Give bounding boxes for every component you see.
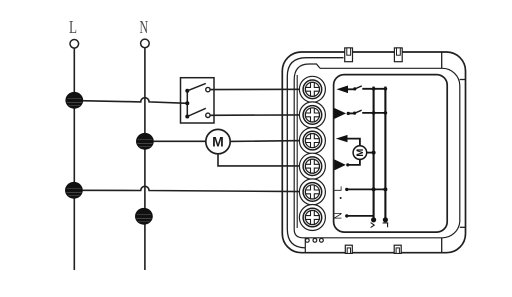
module lid seam and terminal compartment [294,64,460,238]
screw terminal 4 [303,157,322,176]
svg-text:M: M [355,149,366,157]
wire: L junction to switch common (hop over N) [74,98,187,104]
printed bus 1 end dot [371,217,376,222]
printed wire row 3 to motor symbol [348,139,360,146]
bottom clip tab 1 [345,245,352,253]
switch S box [181,78,215,123]
inner panel [334,75,448,233]
switch S contact circle 2 [206,113,210,117]
screw terminal 1 [303,80,322,99]
wire: switch contact 1 to module terminal 1 [210,88,303,90]
svg-text:L: L [69,17,77,37]
stray print dot [340,197,342,199]
top clip tab 2 [394,48,402,62]
motor M [206,129,230,153]
top clip tab 1 [345,48,353,62]
switch S blade 2 [187,108,206,116]
terminal N [140,17,150,48]
switch S contact circle 1 [206,87,210,91]
module lid step top [441,53,443,69]
printed arrow terminal 1 [337,86,349,94]
module lid step right-bottom [460,226,466,228]
switch S pole dots [185,89,189,119]
printed arrow terminal 3 [336,135,348,142]
junction dot: L upper [65,92,83,109]
junction dot: L lower [65,182,83,199]
printed bus 2 [384,87,386,220]
module lid inner-left outline [287,58,343,248]
wire: L vertical line [73,48,75,270]
svg-text:L: L [334,186,345,192]
screw terminal 3 [303,131,322,150]
wire: switch contact 2 to module terminal 2 [210,114,303,116]
indicator holes [305,238,323,242]
screw terminal 6 [303,208,322,227]
svg-text:M: M [212,134,224,150]
module lid step bottom [441,238,443,253]
wire: motor to module terminal 3 [230,140,303,143]
printed motor symbol [353,146,367,160]
terminal L [69,17,79,48]
printed wire row 2 with contact [347,112,350,115]
printed wire row 5 [345,188,348,191]
screws [303,80,322,227]
switch S common bar [186,91,188,117]
printed wire row 1 with contact [348,88,354,90]
terminal block scalloped bulges [299,76,325,230]
switch S blade 1 [187,83,206,90]
printed wire row 4 to motor symbol [346,163,349,166]
screw terminal 5 [303,183,322,202]
screw terminal 2 [303,106,322,125]
bottom clip tab 2 [394,245,401,253]
printed arrow terminal 2 [334,108,346,119]
svg-text:N: N [140,17,149,37]
printed glyph under bus 1 [371,223,375,228]
terminal compartment inner wall [296,75,298,228]
printed arrow terminal 4 [334,159,346,170]
printed wire motor to bus 1 [367,152,374,154]
wire: N junction to motor [145,140,206,142]
printed wire row 6 [345,214,348,217]
svg-text:N: N [334,212,345,219]
wire: L junction to module terminal 5 (hop over N) [74,186,304,191]
module lid step right-top [460,79,466,81]
printed bus 1 [373,87,375,220]
junction dot: N upper [136,133,154,150]
module outer case [282,52,465,253]
wire: motor bottom to module terminal 4 [218,154,304,166]
terminal compartment bottom vertical [304,238,306,253]
junction dot: N lower [135,208,153,225]
printed glyph under bus 2 [383,223,389,227]
printed bus 2 end dot [383,217,388,222]
wire: N vertical line [144,48,146,270]
